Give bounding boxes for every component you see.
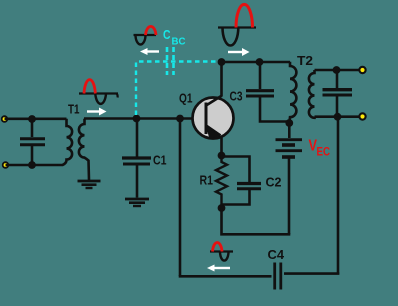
output terminal J4 [358, 112, 366, 120]
waveform output signal [218, 4, 256, 45]
ground (T1 secondary) [78, 181, 101, 188]
node input top [28, 115, 36, 123]
output tuning capacitor [323, 70, 353, 117]
resistor R1 [216, 156, 227, 209]
svg-text:C4: C4 [268, 247, 285, 262]
wire output down [337, 117, 340, 275]
wire emitter [220, 136, 223, 156]
capacitor CBC dashed feedback [136, 47, 219, 115]
svg-text:EC: EC [317, 147, 331, 159]
capacitor C1 [122, 119, 151, 198]
battery VEC [276, 123, 303, 234]
input tuning capacitor [20, 119, 45, 165]
wire output bottom [315, 115, 363, 118]
wire output top [315, 69, 363, 72]
svg-text:T2: T2 [297, 53, 313, 68]
transistor Q1 [193, 96, 234, 140]
waveform bottom feedback signal [210, 243, 233, 261]
svg-text:C3: C3 [230, 89, 243, 104]
arrow feedback signal [140, 48, 159, 55]
node output cap bottom [334, 113, 342, 121]
wire input top [5, 118, 67, 121]
wire collector [220, 62, 223, 96]
svg-text:C: C [163, 27, 171, 42]
input terminal J2 [2, 161, 9, 168]
transformer T1 secondary coil [79, 119, 89, 180]
waveform input signal [79, 80, 118, 104]
capacitor C4 [275, 263, 281, 290]
wire bottom rail right [284, 272, 339, 275]
node input bottom [28, 161, 36, 169]
node emitter [218, 152, 226, 160]
wire bottom rail left [179, 275, 272, 278]
wire base [84, 117, 205, 120]
wire input bottom [6, 164, 59, 167]
ground (C1) [125, 199, 149, 206]
wire collector to tank [222, 61, 291, 64]
node base/feedback [176, 115, 184, 123]
arrow bottom feedback signal [207, 265, 230, 272]
svg-text:T1: T1 [68, 102, 80, 117]
node collector [218, 58, 226, 66]
svg-text:C2: C2 [266, 175, 282, 190]
wire base down [179, 119, 182, 277]
node C3 top [256, 58, 264, 66]
node output cap top [333, 66, 341, 74]
arrow input signal [87, 108, 107, 116]
label VEC [309, 138, 331, 159]
svg-text:BC: BC [172, 36, 186, 48]
capacitor C2 [222, 157, 262, 205]
capacitor C3 [246, 62, 289, 122]
arrow output signal [228, 48, 250, 56]
node tank bottom [285, 119, 293, 127]
svg-text:R1: R1 [200, 173, 214, 188]
output terminal J3 [358, 66, 366, 74]
transformer T1 primary coil [58, 119, 72, 165]
waveform feedback signal [134, 26, 157, 44]
transformer T2 secondary coil [309, 70, 315, 118]
transformer T2 primary coil [289, 62, 296, 123]
label CBC [163, 27, 186, 48]
node R1 bottom [218, 204, 226, 212]
svg-text:Q1: Q1 [179, 91, 193, 106]
node base/C1/CBC [133, 115, 141, 123]
input terminal J1 [1, 115, 8, 122]
svg-text:C1: C1 [153, 153, 167, 168]
wire emitter return [222, 208, 291, 234]
